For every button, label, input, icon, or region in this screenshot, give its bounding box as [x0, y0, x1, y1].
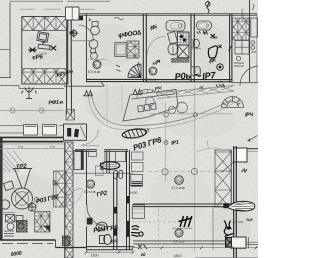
svg-text:8 пл: 8 пл	[50, 144, 56, 148]
svg-text:№б: №б	[246, 218, 254, 222]
svg-text:∆ех: ∆ех	[213, 36, 218, 40]
svg-text:1800: 1800	[91, 254, 99, 258]
svg-text:103: 103	[88, 182, 93, 186]
svg-text:37,2 м.кв: 37,2 м.кв	[172, 186, 186, 190]
svg-text:102: 102	[176, 178, 181, 182]
svg-text:Λ/со(000: Λ/со(000	[241, 9, 245, 21]
svg-text:Σ 15.48: Σ 15.48	[39, 54, 48, 56]
svg-text:4,2 м.кв: 4,2 м.кв	[144, 78, 156, 82]
svg-text:08: 08	[149, 69, 153, 73]
svg-text:Ф400: Ф400	[130, 191, 138, 195]
svg-text:Λ/3.000: Λ/3.000	[233, 220, 244, 224]
svg-text:ІР7: ІР7	[202, 70, 217, 81]
svg-text:4 пл: 4 пл	[18, 144, 24, 148]
svg-text:Р0ь: Р0ь	[174, 70, 191, 82]
svg-text:ІРЧ: ІРЧ	[245, 113, 253, 119]
svg-text:4800: 4800	[174, 254, 182, 258]
svg-text:8,9 м.кв: 8,9 м.кв	[88, 70, 100, 74]
svg-text:✚1: ✚1	[59, 101, 64, 105]
svg-text:108: 108	[177, 231, 182, 235]
svg-text:М000: М000	[53, 183, 60, 186]
svg-text:4,5 об: 4,5 об	[135, 128, 142, 131]
svg-text:44.R: 44.R	[44, 17, 49, 20]
svg-text:6,0 м.кв: 6,0 м.кв	[84, 190, 96, 194]
svg-text:хД: хД	[151, 61, 157, 66]
svg-text:03: 03	[93, 63, 97, 67]
svg-text:РФ1: РФ1	[48, 100, 59, 107]
svg-text:⌢⌢: ⌢⌢	[217, 79, 223, 84]
